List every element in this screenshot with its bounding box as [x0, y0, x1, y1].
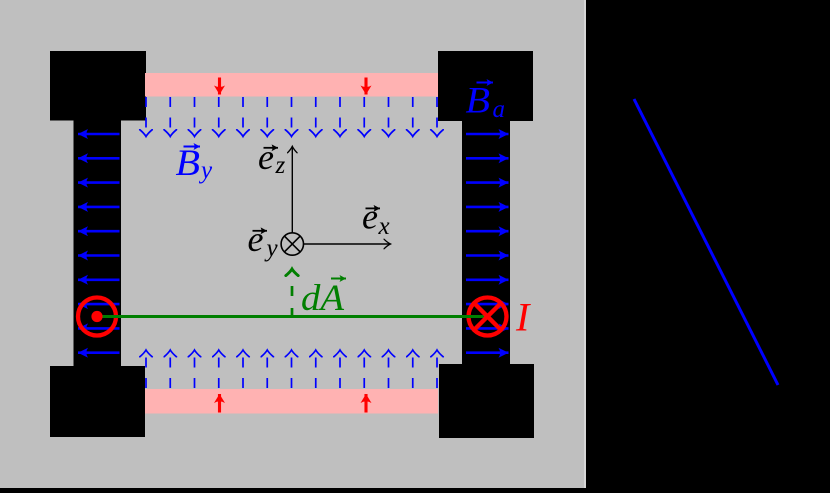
svg-text:dA: dA [301, 278, 344, 319]
B_y dashed field arrow bottom-3 (up) [194, 350, 196, 388]
yoke bar left [74, 120, 122, 366]
svg-text:e: e [362, 197, 378, 237]
B_y dashed field arrow top-13 (down) [436, 97, 438, 137]
conductor right cross (current into page) [474, 303, 500, 329]
B_y dashed field arrow bottom-4 (up) [218, 350, 220, 388]
B_a solid field arrow left-8 (left) [78, 303, 120, 306]
svg-text:y: y [264, 235, 279, 262]
B_y dashed field arrow top-10 (down) [363, 97, 365, 137]
B_y dashed field arrow bottom-12 (up) [412, 350, 414, 388]
B_a solid field arrow left-7 (left) [78, 278, 120, 281]
B_y dashed field arrow top-6 (down) [266, 97, 268, 137]
B_y dashed field arrow top-7 (down) [291, 97, 293, 137]
green conductor wire segment [97, 315, 488, 318]
svg-text:x: x [378, 213, 390, 240]
origin symbol e_y into page (circle-cross) [281, 233, 303, 255]
B_a solid field arrow left-5 (left) [78, 230, 120, 233]
B_y dashed field arrow bottom-2 (up) [169, 350, 171, 388]
B_y dashed field arrow bottom-6 (up) [266, 350, 268, 388]
red magnetization arrow top-1 (down) [218, 78, 221, 95]
red magnetization arrow bottom-1 (up) [218, 394, 221, 413]
svg-text:I: I [515, 295, 531, 340]
label e_x (black) [362, 197, 390, 241]
B_a solid field arrow left-4 (left) [78, 206, 120, 209]
B_a solid field arrow left-6 (left) [78, 254, 120, 257]
B_y dashed field arrow bottom-11 (up) [388, 350, 390, 388]
dA green dashed normal-vector arrow [291, 269, 294, 316]
B_a solid field arrow left-3 (left) [78, 181, 120, 184]
gray diagram background [0, 0, 584, 488]
B_a solid field arrow right-10 (right) [466, 351, 509, 354]
pole block top-left [50, 51, 146, 121]
B_a solid field arrow right-4 (right) [466, 206, 509, 209]
label B_a (blue, on black block) [466, 81, 506, 124]
svg-text:z: z [275, 152, 286, 179]
B_y dashed field arrow top-3 (down) [194, 97, 196, 137]
B_a solid field arrow right-1 (right) [466, 133, 509, 136]
svg-text:B: B [466, 81, 491, 122]
label e_z (black) [258, 137, 286, 179]
axis e_x (horizontal) [304, 243, 391, 245]
B_y dashed field arrow bottom-1 (up) [145, 350, 147, 388]
B_a solid field arrow left-9 (left) [78, 327, 120, 330]
B_a solid field arrow right-8 (right) [466, 303, 509, 306]
B_y dashed field arrow top-11 (down) [388, 97, 390, 137]
svg-text:e: e [248, 219, 264, 259]
B_y dashed field arrow bottom-5 (up) [242, 350, 244, 388]
label e_y (black) [248, 219, 279, 262]
conductor symbol left ring (current out of page) [78, 298, 116, 336]
B_y dashed field arrow top-1 (down) [145, 97, 147, 137]
label B_y (blue) [176, 143, 214, 184]
pole block bottom-left [50, 366, 145, 437]
pole block bottom-right [439, 364, 534, 438]
light edge strip at panel boundary [584, 0, 586, 488]
blue diagonal line in side panel [634, 99, 778, 385]
B_a solid field arrow right-2 (right) [466, 157, 509, 160]
svg-text:B: B [176, 143, 201, 184]
B_a solid field arrow right-6 (right) [466, 254, 509, 257]
yoke bar right [462, 120, 510, 365]
B_a solid field arrow left-2 (left) [78, 157, 120, 160]
B_y dashed field arrow top-5 (down) [242, 97, 244, 137]
conductor left center dot (current out of page) [91, 311, 102, 322]
conductor symbol right ring (current into page) [469, 298, 507, 336]
B_y dashed field arrow bottom-13 (up) [436, 350, 438, 388]
B_y dashed field arrow top-4 (down) [218, 97, 220, 137]
axis e_z (vertical) [291, 146, 293, 233]
B_y dashed field arrow top-2 (down) [169, 97, 171, 137]
B_y dashed field arrow bottom-8 (up) [315, 350, 317, 388]
B_a solid field arrow left-10 (left) [78, 351, 120, 354]
red magnetization arrow bottom-2 (up) [364, 394, 367, 413]
svg-text:y: y [198, 157, 213, 184]
B_a solid field arrow right-7 (right) [466, 278, 509, 281]
B_a solid field arrow right-3 (right) [466, 181, 509, 184]
B_y dashed field arrow top-9 (down) [339, 97, 341, 137]
pole block top-right [438, 51, 533, 121]
red magnetization arrow top-2 (down) [364, 78, 367, 95]
B_y dashed field arrow top-8 (down) [315, 97, 317, 137]
B_y dashed field arrow bottom-9 (up) [339, 350, 341, 388]
pole face strip bottom (pink) [145, 389, 438, 414]
svg-text:a: a [493, 96, 506, 123]
B_y dashed field arrow bottom-10 (up) [363, 350, 365, 388]
svg-text:e: e [258, 137, 274, 177]
black side panel [586, 0, 830, 488]
B_y dashed field arrow bottom-7 (up) [291, 350, 293, 388]
pole face strip top (pink) [145, 73, 438, 97]
B_y dashed field arrow top-12 (down) [412, 97, 414, 137]
B_a solid field arrow right-9 (right) [466, 327, 509, 330]
B_a solid field arrow left-1 (left) [78, 133, 120, 136]
label dA (green) [301, 278, 346, 319]
B_a solid field arrow right-5 (right) [466, 230, 509, 233]
